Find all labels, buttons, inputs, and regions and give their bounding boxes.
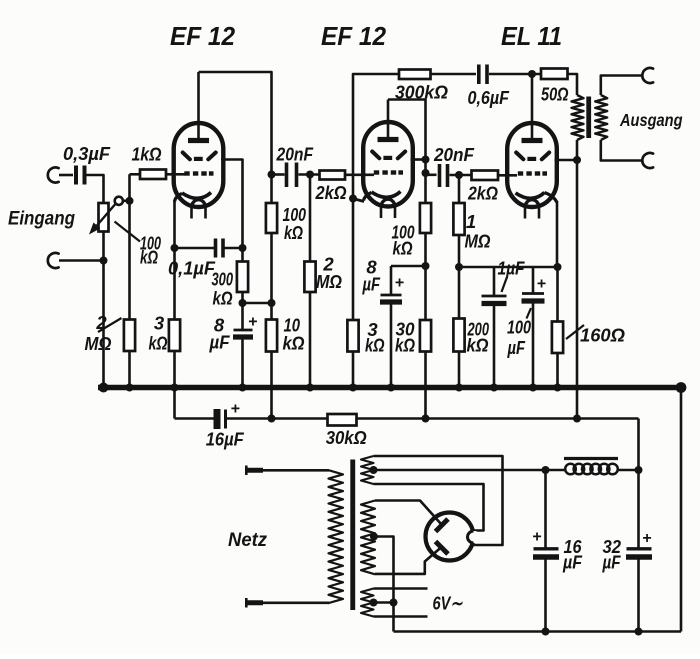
mains transformer core: [350, 460, 355, 611]
mains terminal bottom: [263, 601, 329, 604]
tube V2 EF12 envelope: [363, 122, 413, 207]
svg-text:1: 1: [466, 211, 476, 232]
wire wiper to riser: [123, 200, 130, 203]
wire cathode node rail: [459, 266, 558, 269]
resistor R 300k (V1 screen): [237, 262, 248, 293]
wire V1 plate riser to top rail: [197, 72, 200, 142]
resistor R 1k: [140, 170, 166, 180]
mains terminal top: [245, 468, 263, 473]
wire NFB riser to top rail: [353, 74, 399, 199]
wire 300k to node: [241, 292, 244, 329]
tube V1 EF12 envelope: [174, 123, 224, 207]
resistor R 10k (decoupling): [266, 320, 277, 352]
node 8uF2 tap: [422, 262, 430, 270]
wire HV centre tap down: [374, 537, 394, 632]
wire C1 to potentiometer: [87, 175, 104, 203]
wire rail corner down to choke: [637, 419, 640, 471]
svg-text:+: +: [231, 401, 240, 418]
node V1 plate / 20nF: [268, 171, 276, 179]
transformer T1 core: [586, 97, 591, 139]
svg-text:2: 2: [95, 312, 107, 333]
tube V3 EL11 anode bar: [522, 138, 543, 143]
capacitor C 8uF (V2): [390, 266, 393, 295]
wire filament bottom end: [374, 484, 484, 531]
node heater centre tap: [370, 599, 378, 607]
tube V2 EF12 heater pins: [380, 207, 383, 219]
capacitor C 8uF (V1): [234, 329, 253, 332]
potentiometer arrow: [97, 202, 118, 226]
wire pot bottom to jack2 node: [102, 232, 105, 391]
svg-text:kΩ: kΩ: [395, 335, 415, 356]
capacitor C 100uF: [532, 267, 535, 294]
wire V1 screen to dropper: [221, 160, 243, 262]
tube V2 EF12 control-grid dashes: [374, 170, 379, 174]
svg-text:3: 3: [154, 313, 165, 334]
wire 2k2 to V3 grid: [498, 174, 517, 177]
node choke left: [542, 466, 550, 474]
svg-text:kΩ: kΩ: [283, 333, 305, 354]
wire 3k to bus and drop to rail: [173, 351, 176, 419]
svg-text:kΩ: kΩ: [467, 335, 489, 356]
node choke right: [635, 466, 643, 474]
resistor R 200k: [453, 319, 464, 352]
node V3 plate: [528, 70, 536, 78]
resistor R 2k (V2 grid stopper): [320, 171, 346, 180]
resistor R 2k (V3 grid stopper): [472, 171, 499, 181]
node jack2: [100, 257, 108, 265]
tube V3 EL11 heater dome: [525, 200, 539, 208]
node HV centre tap: [370, 533, 378, 541]
capacitor C 1uF: [493, 267, 496, 296]
rectifier anode bottom: [436, 542, 449, 555]
resistor R 300k (NFB): [399, 70, 431, 80]
svg-text:0,3µF: 0,3µF: [63, 143, 111, 164]
output jack bottom: [642, 153, 653, 168]
wire 20nF node down: [270, 175, 273, 204]
svg-text:MΩ: MΩ: [465, 231, 491, 252]
svg-text:µF: µF: [602, 552, 621, 573]
capacitor C 0,1uF: [175, 247, 215, 250]
wire heater bottom stub: [374, 615, 428, 618]
wire jack1 to C1: [59, 174, 73, 177]
wire 30k through bus to rail: [424, 352, 427, 419]
wire V1 cathode: [175, 194, 183, 202]
tube V2 EF12 cathode arc: [372, 192, 401, 198]
svg-text:µF: µF: [362, 274, 381, 295]
input jack top: [48, 167, 59, 182]
node 20nF2 tap: [422, 169, 430, 177]
node B+ takeoff / wire to choke: [370, 466, 378, 474]
node wiper riser: [126, 197, 134, 205]
wire jack2 to pot line: [59, 259, 104, 262]
capacitor C 32uF (PSU): [637, 470, 640, 549]
capacitor 20nF (2): [426, 174, 437, 177]
resistor R 1M (V3 grid leak): [453, 203, 464, 235]
wire V3 cathode link: [545, 193, 558, 203]
tube V1 EF12 heater dome: [192, 200, 206, 208]
wire 2M to bus: [128, 351, 131, 388]
tube V3 EL11 envelope: [507, 123, 557, 207]
wire 100k to node: [270, 233, 273, 320]
svg-text:160Ω: 160Ω: [580, 325, 626, 346]
wire 2M2 down: [309, 175, 312, 262]
wire secondary to output jacks: [601, 76, 642, 96]
svg-text:Ausgang: Ausgang: [619, 110, 683, 130]
resistor R 2M (V2 grid leak): [304, 262, 315, 293]
wire 1k to V1 grid: [166, 173, 185, 176]
wire ground bus to PSU rail: [680, 388, 683, 632]
wire HV bottom to lower anode: [375, 547, 442, 574]
svg-text:kΩ: kΩ: [149, 333, 168, 354]
wire 300k to 0,6uF: [431, 73, 477, 76]
B+ rail with series 16uF and 30k: [175, 417, 215, 420]
filter choke winding: [546, 469, 567, 472]
capacitor C1 0,3uF: [74, 166, 78, 185]
svg-text:Eingang: Eingang: [8, 209, 75, 230]
svg-text:2kΩ: 2kΩ: [315, 182, 347, 203]
rectifier anode top: [436, 519, 449, 532]
input jack bottom: [48, 253, 59, 268]
node cathode / 0,1uF: [171, 244, 179, 252]
resistor R 3k (V2 cathode): [352, 199, 355, 321]
resistor R 30k (V2 decoupling): [420, 320, 431, 352]
wire 2M2 to bus: [309, 292, 312, 388]
wire V2 plate riser: [387, 100, 390, 142]
svg-text:0,1µF: 0,1µF: [168, 258, 216, 279]
svg-text:100: 100: [507, 317, 532, 338]
wire 8uF to bus: [241, 337, 244, 388]
node 20nF / 2M2: [306, 171, 314, 179]
output jack top: [642, 68, 653, 83]
wire V2 cathode link: [364, 193, 372, 201]
rectifier filament winding: [361, 456, 374, 484]
transformer T1 secondary: [595, 95, 607, 140]
potentiometer 100k body: [99, 203, 109, 232]
svg-text:+: +: [248, 314, 257, 331]
svg-text:1µF: 1µF: [498, 258, 526, 279]
HV secondary winding: [361, 501, 375, 575]
rectifier cathode notch: [469, 531, 481, 543]
potentiometer wiper circle: [115, 197, 123, 205]
capacitor C 0,6uF: [477, 65, 481, 85]
node cathode rail left: [455, 263, 463, 271]
wire V3 plate riser: [531, 74, 534, 142]
wire V3 screen tap: [555, 159, 578, 162]
svg-text:kΩ: kΩ: [284, 222, 303, 243]
wire filament top end: [374, 456, 503, 545]
svg-text:300kΩ: 300kΩ: [395, 82, 449, 103]
svg-text:20nF: 20nF: [276, 144, 314, 165]
wire 10k through bus to rail: [270, 352, 273, 419]
svg-text:EL 11: EL 11: [501, 23, 562, 51]
node 0,1uF / screen line: [239, 244, 247, 252]
heater winding 6V: [361, 589, 374, 617]
resistor R 50 (Boucherot): [541, 69, 568, 80]
transformer T1 primary: [572, 95, 584, 140]
tube V2 EF12 heater dome: [381, 199, 395, 207]
tube V1 EF12 screen-grid dashes: [183, 153, 190, 160]
tube V1 EF12 anode bar: [188, 138, 209, 143]
wire 1M chain: [458, 175, 461, 203]
PSU bottom rail: [394, 630, 682, 633]
resistor R 2M (V1 grid): [124, 320, 135, 352]
node V2 cathode: [349, 195, 357, 203]
wire to primary top: [263, 469, 329, 472]
mains transformer primary winding: [329, 470, 344, 603]
svg-text:1kΩ: 1kΩ: [132, 144, 162, 165]
wire V2 screen tap: [411, 158, 426, 161]
resistor R 100k (V1 plate load): [266, 203, 277, 233]
svg-text:µF: µF: [562, 552, 582, 573]
ground bus: [98, 385, 681, 390]
svg-text:kΩ: kΩ: [140, 247, 158, 268]
tube V2 EF12 anode bar: [378, 137, 399, 142]
wire 50R to transformer: [568, 74, 578, 95]
svg-text:Netz: Netz: [228, 529, 267, 551]
svg-text:50Ω: 50Ω: [541, 84, 569, 105]
resistor R 3k (V1 cathode): [169, 320, 180, 352]
resistor R 30k (rail): [328, 414, 357, 426]
tube V3 EL11 heater pins: [524, 207, 527, 219]
wire 2k to V2 grid: [345, 174, 374, 177]
tube V1 EF12 control-grid dashes: [184, 171, 189, 175]
wire heater top stub: [374, 587, 428, 590]
svg-text:+: +: [537, 276, 546, 293]
tube V3 EL11 cathode arc: [516, 193, 545, 199]
svg-text:kΩ: kΩ: [393, 238, 413, 259]
node 20nF2 / 1M: [455, 171, 463, 179]
tube V2 EF12 screen-grid dashes: [372, 152, 379, 159]
wire 100k2 to 30k: [424, 233, 427, 320]
svg-text:EF 12: EF 12: [321, 23, 386, 51]
tube V1 EF12 heater pins: [190, 207, 193, 219]
tube V1 EF12 cathode arc: [182, 193, 211, 199]
svg-text:16µF: 16µF: [206, 429, 245, 450]
wire grid riser: [128, 174, 131, 319]
label 100k pot: [115, 222, 141, 242]
rectifier tube envelope: [426, 513, 474, 561]
svg-text:MΩ: MΩ: [316, 271, 342, 292]
svg-text:0,6µF: 0,6µF: [468, 87, 510, 108]
svg-text:30kΩ: 30kΩ: [326, 427, 368, 448]
svg-text:µF: µF: [209, 332, 231, 353]
svg-text:EF 12: EF 12: [170, 23, 235, 51]
svg-text:+: +: [532, 529, 541, 546]
svg-text:kΩ: kΩ: [213, 288, 233, 309]
svg-text:+: +: [395, 275, 404, 292]
svg-text:+: +: [642, 530, 651, 547]
capacitor C 16uF (PSU): [544, 470, 547, 549]
label 2M: [98, 318, 122, 332]
resistor R 100k (V2 plate load): [420, 203, 431, 233]
svg-text:6V∼: 6V∼: [433, 593, 463, 614]
capacitor 20nF (1): [272, 173, 285, 176]
wire HV top to upper anode: [375, 501, 442, 525]
svg-text:µF: µF: [507, 337, 526, 358]
svg-text:20nF: 20nF: [433, 144, 475, 165]
svg-text:kΩ: kΩ: [365, 335, 385, 356]
node decouple A: [239, 299, 247, 307]
svg-text:300: 300: [212, 269, 234, 290]
tube V3 EL11 screen-grid dashes: [516, 153, 523, 160]
tube V3 EL11 control-grid dashes: [518, 171, 523, 175]
filter choke core: [564, 457, 618, 460]
resistor R 160 (V3 cathode): [556, 267, 559, 322]
svg-text:MΩ: MΩ: [85, 333, 112, 354]
svg-text:2kΩ: 2kΩ: [467, 183, 498, 204]
wire primary bottom to rail (B+): [576, 140, 579, 419]
